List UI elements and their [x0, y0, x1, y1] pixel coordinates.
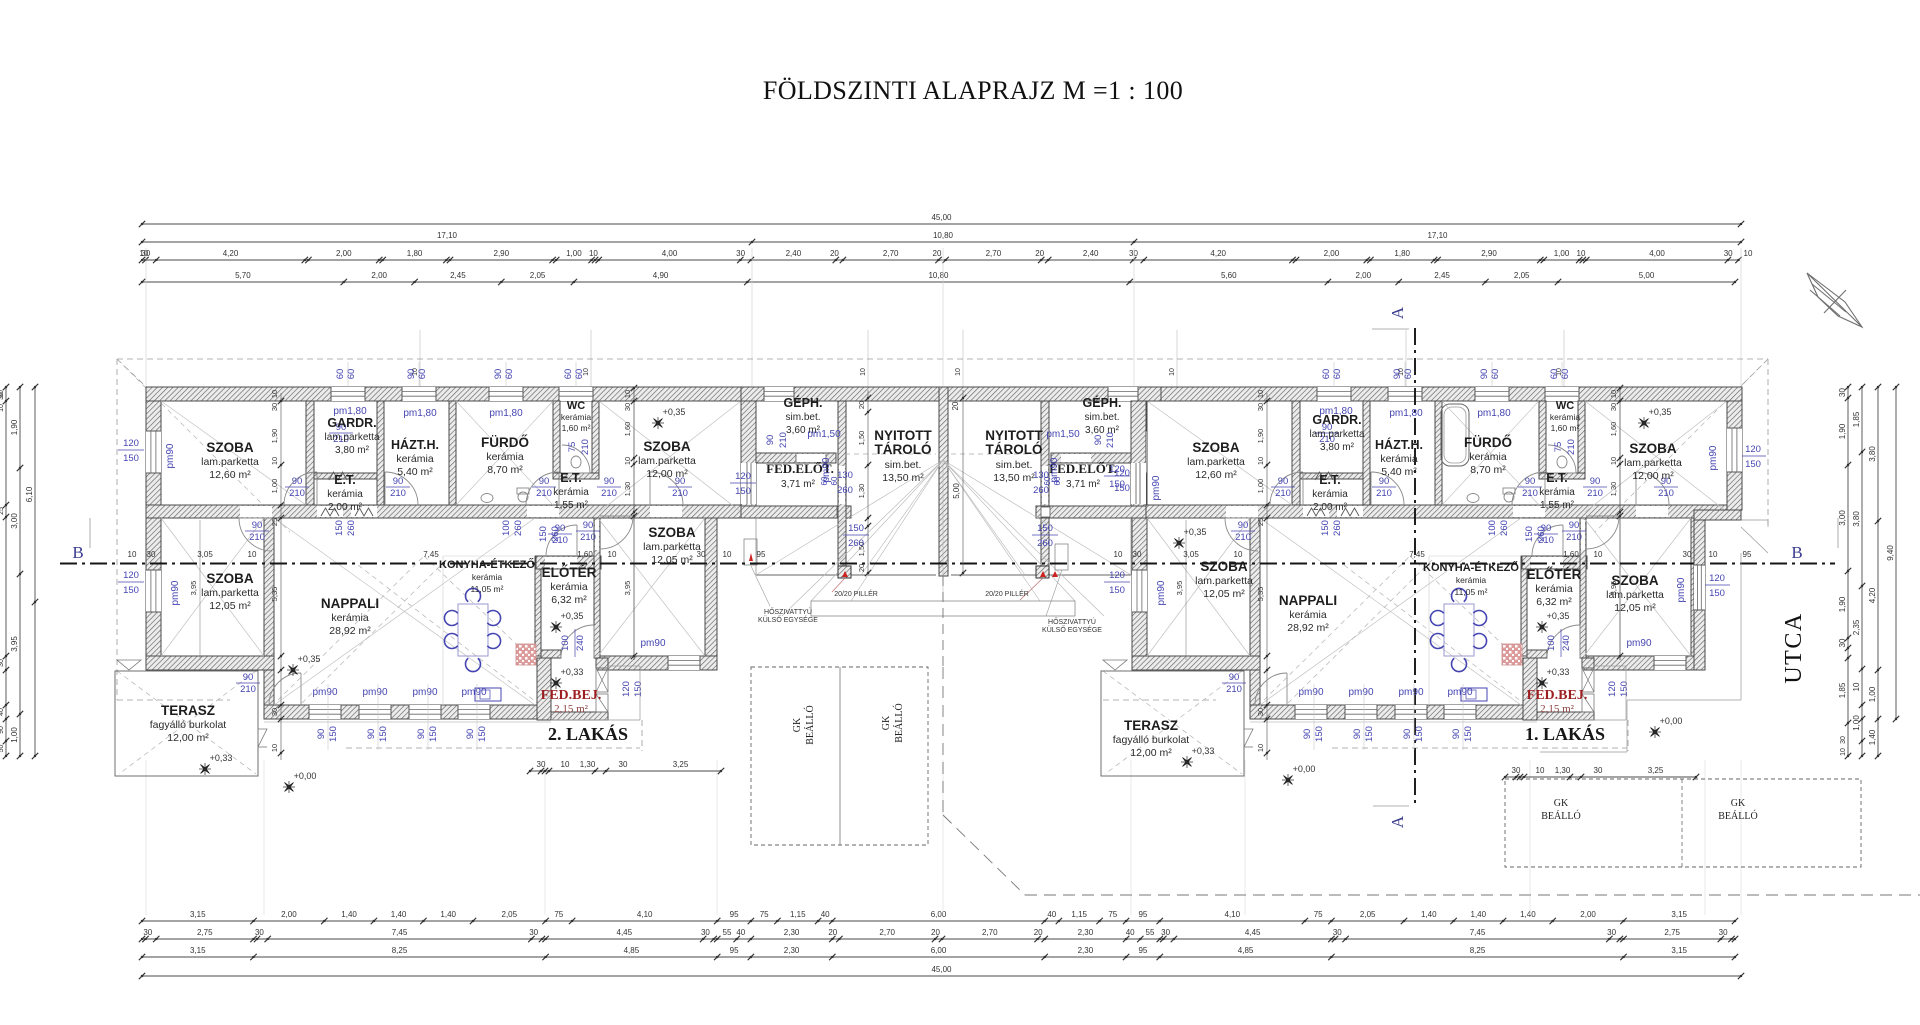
apartment 2 kitchen zone line	[442, 556, 444, 705]
apartment 2 wall KONYHA-ELOTER	[535, 556, 541, 656]
svg-text:10: 10	[270, 390, 279, 398]
svg-text:3,71 m²: 3,71 m²	[781, 479, 816, 490]
svg-text:260: 260	[1033, 485, 1049, 496]
svg-text:2,45: 2,45	[450, 271, 466, 280]
svg-text:10: 10	[248, 550, 257, 559]
svg-text:90: 90	[1278, 476, 1289, 487]
svg-text:kerámia: kerámia	[1312, 489, 1348, 500]
svg-text:1,00: 1,00	[270, 479, 279, 494]
svg-text:pm90: pm90	[362, 687, 387, 698]
svg-text:1,80: 1,80	[1394, 249, 1410, 258]
svg-text:30: 30	[255, 928, 264, 937]
svg-text:pm1,80: pm1,80	[489, 408, 523, 419]
svg-text:210: 210	[778, 432, 789, 448]
svg-text:GK: GK	[792, 717, 803, 732]
north arrow	[1807, 273, 1862, 327]
svg-text:ELŐTÉR: ELŐTÉR	[1527, 567, 1582, 582]
svg-text:10: 10	[0, 404, 5, 412]
svg-text:NYITOTT: NYITOTT	[874, 428, 932, 443]
svg-text:8,25: 8,25	[392, 946, 408, 955]
top dimension line 5,70 2,00 ...	[142, 281, 1735, 283]
svg-text:pm90: pm90	[1049, 457, 1060, 482]
svg-text:GARDR.: GARDR.	[327, 416, 376, 430]
left vertical dimension chains	[5, 387, 7, 756]
svg-text:210: 210	[1376, 488, 1392, 499]
svg-text:40: 40	[821, 910, 830, 919]
svg-text:2,70: 2,70	[879, 928, 895, 937]
svg-text:12,00 m²: 12,00 m²	[1632, 470, 1674, 482]
svg-text:210: 210	[672, 488, 688, 499]
apartment 1 wall SZOBA1205 right	[1691, 518, 1703, 670]
svg-text:240: 240	[1561, 635, 1572, 651]
svg-text:210: 210	[1105, 432, 1116, 448]
svg-text:2,90: 2,90	[1481, 249, 1497, 258]
svg-text:90: 90	[604, 476, 615, 487]
svg-text:12,05 m²: 12,05 m²	[651, 554, 693, 566]
svg-text:TÁROLÓ: TÁROLÓ	[875, 442, 932, 457]
svg-text:60: 60	[335, 369, 346, 380]
svg-text:90: 90	[1451, 729, 1462, 740]
svg-text:100: 100	[1546, 635, 1557, 651]
svg-text:2,05: 2,05	[1360, 910, 1376, 919]
svg-text:150: 150	[1463, 726, 1474, 742]
apartment 1 bottom wall szoba row	[1132, 656, 1260, 670]
svg-text:90: 90	[1093, 435, 1104, 446]
svg-text:130: 130	[837, 470, 853, 481]
svg-text:FED.BEJ.: FED.BEJ.	[541, 688, 602, 703]
svg-text:10: 10	[1169, 368, 1176, 376]
svg-text:1,30: 1,30	[580, 760, 596, 769]
svg-text:12,00 m²: 12,00 m²	[646, 468, 688, 480]
svg-text:3,05: 3,05	[197, 550, 213, 559]
svg-text:kerámia: kerámia	[396, 453, 434, 465]
svg-text:12,05 m²: 12,05 m²	[209, 600, 251, 612]
svg-text:20: 20	[931, 928, 940, 937]
svg-text:150: 150	[477, 726, 488, 742]
apartment 2 door arcs	[284, 472, 317, 505]
svg-text:SZOBA: SZOBA	[1192, 440, 1240, 455]
svg-text:E.T.: E.T.	[1319, 473, 1341, 487]
svg-text:+0,00: +0,00	[294, 771, 317, 781]
apartment 2 wall WC-SZOBA	[592, 401, 599, 473]
svg-text:2,90: 2,90	[494, 249, 510, 258]
svg-text:kerámia: kerámia	[1539, 487, 1575, 498]
svg-text:+0,00: +0,00	[1660, 716, 1683, 726]
svg-text:120: 120	[123, 570, 139, 581]
svg-text:55: 55	[1146, 928, 1155, 937]
tarolo fan lines	[756, 460, 943, 575]
svg-text:20: 20	[1035, 249, 1044, 258]
svg-text:B: B	[1791, 543, 1802, 562]
svg-text:120: 120	[1607, 681, 1618, 697]
svg-text:pm90: pm90	[412, 687, 437, 698]
svg-text:WC: WC	[1556, 400, 1574, 412]
svg-text:kerámia: kerámia	[1550, 412, 1581, 422]
svg-text:1,40: 1,40	[1520, 910, 1536, 919]
svg-text:7,45: 7,45	[423, 550, 439, 559]
svg-text:30: 30	[1133, 550, 1142, 559]
svg-text:30: 30	[619, 760, 628, 769]
svg-text:10: 10	[1234, 550, 1243, 559]
svg-text:4,10: 4,10	[1225, 910, 1241, 919]
svg-text:1,00: 1,00	[10, 727, 19, 743]
svg-text:6,10: 6,10	[25, 486, 34, 502]
entry porch thin outlines	[608, 665, 640, 667]
svg-text:2,30: 2,30	[784, 928, 800, 937]
svg-text:4,20: 4,20	[223, 249, 239, 258]
svg-text:75: 75	[1108, 910, 1117, 919]
svg-text:5,70: 5,70	[235, 271, 251, 280]
svg-text:+0,35: +0,35	[1184, 527, 1207, 537]
apartment 1 sill line below bottom wall	[1250, 721, 1537, 723]
apartment 1 valley dashed diagonals	[1264, 556, 1410, 700]
svg-text:120: 120	[735, 471, 751, 482]
svg-text:30: 30	[1607, 928, 1616, 937]
svg-text:2,75: 2,75	[197, 928, 213, 937]
svg-text:5,00: 5,00	[1639, 271, 1655, 280]
svg-text:7,45: 7,45	[1470, 928, 1486, 937]
right exterior wall top	[1727, 401, 1742, 510]
fed.elot right bottom wall	[1036, 506, 1146, 518]
svg-text:pm90: pm90	[1447, 687, 1472, 698]
svg-text:3,15: 3,15	[190, 910, 206, 919]
svg-text:1,00: 1,00	[1554, 249, 1570, 258]
svg-text:210: 210	[240, 684, 256, 695]
svg-text:KONYHA-ÉTKEZŐ: KONYHA-ÉTKEZŐ	[1423, 561, 1519, 574]
svg-text:2,40: 2,40	[1083, 249, 1099, 258]
svg-text:10: 10	[1852, 682, 1861, 691]
svg-text:lam.parketta: lam.parketta	[1309, 429, 1364, 440]
svg-text:kerámia: kerámia	[472, 572, 503, 582]
svg-text:30: 30	[1838, 388, 1847, 397]
svg-text:20: 20	[857, 564, 866, 572]
apartment 1 wall KONYHA-ELOTER	[1521, 556, 1527, 656]
svg-text:90: 90	[1392, 369, 1403, 380]
svg-text:kerámia: kerámia	[1469, 451, 1507, 463]
witness lines	[145, 248, 147, 386]
apartment 2 wall SZOBA12-NAPPALI lower	[264, 518, 274, 719]
apartment 1 FED.BEJ walls	[1523, 658, 1537, 720]
svg-text:pm90: pm90	[821, 457, 832, 482]
svg-text:60: 60	[1332, 369, 1343, 380]
svg-text:BEÁLLÓ: BEÁLLÓ	[893, 703, 905, 742]
svg-text:sim.bet.: sim.bet.	[885, 459, 922, 471]
svg-text:NAPPALI: NAPPALI	[321, 596, 379, 611]
svg-text:90: 90	[539, 476, 550, 487]
svg-text:7,45: 7,45	[1409, 550, 1425, 559]
svg-text:pm90: pm90	[165, 443, 176, 468]
svg-text:A: A	[1388, 815, 1407, 828]
apartment 2 left exterior wall	[146, 401, 161, 670]
svg-text:30: 30	[0, 392, 5, 400]
svg-text:260: 260	[1536, 526, 1547, 542]
svg-text:260: 260	[848, 538, 864, 549]
svg-text:3,25: 3,25	[1648, 766, 1664, 775]
svg-text:30: 30	[1719, 928, 1728, 937]
svg-text:30: 30	[1683, 550, 1692, 559]
svg-text:1,55 m²: 1,55 m²	[1540, 500, 1575, 511]
svg-text:30: 30	[143, 928, 152, 937]
svg-text:1,50: 1,50	[857, 431, 866, 446]
svg-text:ELŐTÉR: ELŐTÉR	[542, 565, 597, 580]
svg-text:90: 90	[406, 369, 417, 380]
svg-text:10: 10	[561, 760, 570, 769]
svg-text:260: 260	[550, 526, 561, 542]
svg-text:90: 90	[1569, 520, 1580, 531]
svg-text:150: 150	[1709, 588, 1725, 599]
svg-text:8,70 m²: 8,70 m²	[1470, 464, 1506, 476]
svg-text:100: 100	[501, 520, 512, 536]
svg-text:BEÁLLÓ: BEÁLLÓ	[804, 705, 816, 744]
svg-text:55: 55	[723, 928, 732, 937]
svg-text:+0,33: +0,33	[1192, 746, 1215, 756]
svg-text:150: 150	[633, 681, 644, 697]
svg-text:kerámia: kerámia	[327, 489, 363, 500]
apartment 1 wall SZOBA12-NAPPALI lower	[1250, 518, 1260, 719]
svg-text:8,25: 8,25	[1470, 946, 1486, 955]
apartment 1 top exterior wall	[1132, 387, 1742, 401]
svg-text:4,85: 4,85	[1238, 946, 1254, 955]
center wall	[939, 387, 948, 576]
svg-text:30: 30	[701, 928, 710, 937]
svg-text:kerámia: kerámia	[550, 581, 588, 593]
svg-text:210: 210	[1235, 532, 1251, 543]
svg-text:lam.parketta: lam.parketta	[1624, 457, 1682, 469]
svg-text:SZOBA: SZOBA	[1611, 573, 1659, 588]
svg-text:260: 260	[1332, 520, 1343, 536]
apartment 2 FED.BEJ steps	[596, 668, 608, 692]
kitchen sink	[1461, 688, 1487, 701]
apartment 1 bottom wall windows	[1295, 705, 1327, 719]
svg-text:kerámia: kerámia	[1289, 609, 1327, 621]
svg-text:10: 10	[1256, 744, 1265, 752]
svg-text:HŐSZIVATTYÚ: HŐSZIVATTYÚ	[1048, 617, 1096, 626]
svg-text:5,60: 5,60	[1221, 271, 1237, 280]
svg-text:30: 30	[147, 550, 156, 559]
svg-text:30: 30	[1161, 928, 1170, 937]
svg-text:5,35: 5,35	[1256, 587, 1265, 602]
bottom dimension detail line 2	[142, 938, 1735, 940]
svg-text:10: 10	[1709, 550, 1718, 559]
svg-text:fagyálló burkolat: fagyálló burkolat	[150, 719, 227, 731]
svg-text:90: 90	[1302, 729, 1313, 740]
svg-text:sim.bet.: sim.bet.	[785, 412, 820, 423]
svg-text:90: 90	[292, 476, 303, 487]
svg-text:4,00: 4,00	[662, 249, 678, 258]
svg-text:210: 210	[580, 532, 596, 543]
svg-text:1,90: 1,90	[1256, 429, 1265, 444]
svg-text:210: 210	[1226, 684, 1242, 695]
svg-text:fagyálló burkolat: fagyálló burkolat	[1113, 734, 1190, 746]
kitchen sink	[475, 688, 501, 701]
svg-text:20/20 PILLÉR: 20/20 PILLÉR	[834, 589, 878, 598]
svg-text:kerámia: kerámia	[331, 612, 369, 624]
fed.elot right open side	[1131, 463, 1146, 504]
svg-text:lam.parketta: lam.parketta	[201, 587, 259, 599]
svg-text:210: 210	[390, 488, 406, 499]
svg-text:30: 30	[529, 928, 538, 937]
svg-text:TERASZ: TERASZ	[161, 703, 215, 718]
svg-text:1,90: 1,90	[1838, 596, 1847, 612]
svg-text:240: 240	[575, 635, 586, 651]
apartment 1 wall SZOBA-GARDR	[1292, 401, 1300, 505]
svg-text:1,60: 1,60	[577, 550, 593, 559]
svg-text:10: 10	[1594, 550, 1603, 559]
svg-text:10: 10	[1840, 748, 1847, 756]
svg-text:150: 150	[848, 523, 864, 534]
svg-text:pm90: pm90	[312, 687, 337, 698]
svg-text:1,60 m²: 1,60 m²	[1551, 423, 1580, 433]
svg-text:2,00: 2,00	[371, 271, 387, 280]
svg-text:90: 90	[416, 729, 427, 740]
property dashed boundary	[942, 667, 944, 815]
svg-text:20: 20	[830, 249, 839, 258]
svg-text:90: 90	[316, 729, 327, 740]
svg-text:1,40: 1,40	[1868, 729, 1877, 745]
svg-text:20/20 PILLÉR: 20/20 PILLÉR	[985, 589, 1029, 598]
svg-text:+0,35: +0,35	[298, 654, 321, 664]
svg-text:75: 75	[554, 910, 563, 919]
apartment 2 wall SZOBA1205 right	[705, 518, 717, 670]
svg-text:5,40 m²: 5,40 m²	[1381, 466, 1417, 478]
svg-text:3,95: 3,95	[1175, 581, 1184, 596]
svg-text:60: 60	[504, 369, 515, 380]
svg-text:+0,00: +0,00	[1293, 764, 1316, 774]
svg-text:120: 120	[123, 438, 139, 449]
svg-text:210: 210	[1658, 488, 1674, 499]
svg-text:90: 90	[1229, 672, 1240, 683]
svg-text:28,92 m²: 28,92 m²	[329, 625, 371, 637]
svg-text:pm90: pm90	[1626, 638, 1651, 649]
svg-text:+0,33: +0,33	[210, 753, 233, 763]
apartment 2 WC bottom wall	[553, 473, 599, 479]
svg-text:95: 95	[730, 946, 739, 955]
svg-text:6,32 m²: 6,32 m²	[551, 594, 587, 606]
svg-text:150: 150	[1619, 681, 1630, 697]
svg-text:13,50 m²: 13,50 m²	[882, 472, 924, 484]
svg-text:pm1,50: pm1,50	[1046, 429, 1080, 440]
svg-text:10: 10	[955, 368, 962, 376]
svg-text:100: 100	[1487, 520, 1498, 536]
svg-text:1,15: 1,15	[790, 910, 806, 919]
apartment 2 room diagonals	[161, 401, 306, 505]
svg-text:HÁZT.H.: HÁZT.H.	[391, 437, 439, 452]
svg-text:13,50 m²: 13,50 m²	[993, 472, 1035, 484]
apartment 1 FED.BEJ steps	[1582, 668, 1594, 692]
svg-text:pm90: pm90	[1348, 687, 1373, 698]
apartment 2 eloter szoba-row window	[668, 656, 700, 670]
svg-text:260: 260	[346, 520, 357, 536]
svg-text:FED.BEJ.: FED.BEJ.	[1527, 688, 1588, 703]
svg-text:1,00: 1,00	[1868, 686, 1877, 702]
svg-text:1,30: 1,30	[623, 482, 632, 497]
svg-text:12,60 m²: 12,60 m²	[1195, 469, 1237, 481]
svg-text:2,70: 2,70	[982, 928, 998, 937]
roof eaves dashed outline	[117, 358, 1768, 360]
svg-text:1,40: 1,40	[341, 910, 357, 919]
section line A-A	[1414, 328, 1416, 807]
svg-text:3,95: 3,95	[623, 581, 632, 596]
svg-text:20: 20	[828, 928, 837, 937]
svg-text:90: 90	[1479, 369, 1490, 380]
svg-text:210: 210	[1566, 532, 1582, 543]
svg-text:210: 210	[601, 488, 617, 499]
svg-text:GK: GK	[1554, 798, 1569, 809]
svg-text:2,30: 2,30	[1078, 928, 1094, 937]
svg-text:2,30: 2,30	[784, 946, 800, 955]
svg-text:30: 30	[270, 403, 279, 411]
svg-text:120: 120	[1114, 468, 1130, 479]
svg-text:2,05: 2,05	[530, 271, 546, 280]
svg-text:+0,35: +0,35	[663, 407, 686, 417]
svg-text:5,35: 5,35	[270, 587, 279, 602]
svg-text:NYITOTT: NYITOTT	[985, 428, 1043, 443]
svg-text:2,15 m²: 2,15 m²	[1540, 703, 1575, 715]
svg-text:10: 10	[723, 550, 732, 559]
gk dim row left	[530, 770, 721, 772]
svg-text:2. LAKÁS: 2. LAKÁS	[548, 723, 628, 744]
svg-text:90: 90	[1352, 729, 1363, 740]
apartment 2 wall ELOTER-SZOBA	[594, 518, 600, 658]
kitchen table and chairs	[444, 588, 500, 671]
svg-text:1,40: 1,40	[440, 910, 456, 919]
svg-text:10: 10	[270, 744, 279, 752]
nyitott tarolo left wall	[838, 401, 846, 576]
svg-text:20: 20	[1034, 928, 1043, 937]
svg-text:FÖLDSZINTI ALAPRAJZ M =1 : 100: FÖLDSZINTI ALAPRAJZ M =1 : 100	[763, 76, 1183, 105]
svg-text:150: 150	[1414, 726, 1425, 742]
svg-text:5,00: 5,00	[952, 483, 961, 499]
svg-text:9,40: 9,40	[1886, 545, 1895, 561]
nyitott tarolo right wall	[1041, 401, 1049, 576]
svg-text:28,92 m²: 28,92 m²	[1287, 622, 1329, 634]
svg-text:GARDR.: GARDR.	[1312, 413, 1361, 427]
svg-text:+0,33: +0,33	[561, 667, 584, 677]
svg-text:3,80: 3,80	[1852, 511, 1861, 527]
svg-text:3,00: 3,00	[1838, 510, 1847, 526]
svg-text:150: 150	[1109, 585, 1125, 596]
svg-text:NAPPALI: NAPPALI	[1279, 593, 1337, 608]
svg-text:pm1,80: pm1,80	[1389, 408, 1423, 419]
svg-text:40: 40	[0, 708, 5, 716]
svg-text:210: 210	[249, 532, 265, 543]
apartment 1 ELOTER bottom wall	[1527, 650, 1547, 658]
svg-text:30: 30	[1724, 249, 1733, 258]
svg-text:120: 120	[621, 681, 632, 697]
svg-text:90: 90	[0, 726, 5, 734]
pillar 20/20 left	[838, 566, 851, 578]
svg-text:pm90: pm90	[461, 687, 486, 698]
svg-text:90: 90	[1238, 520, 1249, 531]
geph right walls	[1131, 401, 1146, 506]
svg-text:11,05 m²: 11,05 m²	[1455, 587, 1488, 597]
svg-text:3,15: 3,15	[1671, 946, 1687, 955]
svg-text:30: 30	[1609, 403, 1618, 411]
svg-text:WC: WC	[567, 400, 585, 412]
svg-text:lam.parketta: lam.parketta	[638, 455, 696, 467]
tarolo slab edge	[756, 574, 936, 576]
svg-text:E.T.: E.T.	[1546, 471, 1568, 485]
svg-text:210: 210	[1566, 439, 1577, 455]
svg-text:2,75: 2,75	[1664, 928, 1680, 937]
svg-text:10: 10	[623, 390, 632, 398]
svg-text:150: 150	[328, 726, 339, 742]
svg-text:2,00: 2,00	[1324, 249, 1340, 258]
svg-text:10: 10	[860, 368, 867, 376]
center dashed axis	[942, 576, 944, 667]
GK BEALLO right boxes	[1505, 779, 1861, 867]
svg-text:FÜRDŐ: FÜRDŐ	[1464, 435, 1512, 450]
